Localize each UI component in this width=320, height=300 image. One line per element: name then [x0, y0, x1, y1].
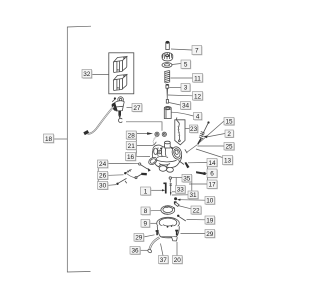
leader 1 with arrowhead — [151, 189, 166, 191]
leader 5 — [172, 64, 181, 65]
leader 10 with arrowhead — [177, 199, 205, 201]
label 13 — [223, 156, 234, 166]
label 20 — [173, 256, 183, 265]
svg-text:34: 34 — [182, 103, 190, 110]
svg-text:28: 28 — [128, 133, 136, 140]
svg-text:35: 35 — [183, 175, 191, 182]
leader 27 — [127, 107, 133, 109]
part 32 upper block (jet block) — [114, 57, 127, 73]
part 5 adjuster nut — [162, 53, 173, 61]
svg-text:3: 3 — [184, 85, 188, 92]
label 6 — [207, 169, 218, 178]
leader 33 — [172, 191, 176, 193]
label 4 — [194, 113, 203, 121]
label 22 — [191, 206, 202, 215]
label 28 — [126, 131, 137, 140]
leader 22 — [178, 206, 191, 209]
leader 18 — [54, 138, 68, 140]
label 36 — [130, 247, 141, 255]
part 14 stud bolt — [185, 162, 190, 168]
label 29 right — [205, 230, 215, 239]
part 7 cable adjuster pin — [166, 41, 170, 50]
wire: choke to carb top leader — [126, 122, 162, 131]
part 4 throttle slide — [164, 107, 171, 119]
leader 21 — [136, 142, 156, 146]
svg-text:22: 22 — [192, 208, 200, 215]
label 2 — [225, 130, 234, 138]
label 37 — [159, 256, 169, 265]
part 11 throttle spring — [165, 71, 170, 84]
svg-text:5: 5 — [184, 62, 188, 69]
leader 13 — [196, 149, 223, 158]
leader 6 — [206, 172, 207, 174]
svg-text:16: 16 — [127, 154, 135, 161]
svg-text:33: 33 — [177, 187, 185, 194]
label 27 — [132, 104, 143, 113]
svg-text:6: 6 — [210, 171, 214, 178]
leader 7 — [171, 49, 192, 50]
svg-text:8: 8 — [144, 208, 148, 215]
leader 4 — [172, 112, 194, 116]
leader 24 — [108, 163, 138, 165]
part: screw for top cover (16/24) — [139, 163, 151, 172]
svg-text:37: 37 — [160, 257, 168, 264]
leader 31 — [172, 194, 188, 196]
leader 29 right — [181, 233, 206, 235]
part 36 drain tube — [147, 238, 159, 254]
container box for part 32 — [109, 53, 134, 94]
label 10 — [205, 197, 215, 205]
label 33 — [176, 186, 186, 194]
svg-text:21: 21 — [128, 143, 136, 150]
label 32 — [82, 70, 92, 79]
svg-text:9: 9 — [144, 221, 148, 228]
leader 9 — [150, 222, 158, 224]
leader 3 — [169, 87, 181, 89]
svg-text:31: 31 — [189, 192, 197, 199]
connector 35-31 — [191, 182, 193, 191]
part 34 needle seat — [166, 100, 168, 104]
bracket 18 (assembly brace) — [67, 26, 91, 272]
part 33 float needle valve — [170, 183, 172, 196]
leader 34 — [169, 103, 181, 106]
label 24 — [98, 160, 109, 169]
label 8 — [141, 207, 151, 215]
leader 36 — [140, 249, 147, 251]
part: washer under nut — [162, 63, 172, 68]
svg-text:11: 11 — [194, 75, 201, 82]
svg-text:29: 29 — [135, 235, 143, 242]
part 29 bowl screws (left and right) — [156, 230, 179, 236]
svg-text:24: 24 — [99, 161, 107, 168]
label 14 — [207, 159, 218, 168]
part 32 lower block (jet block) — [114, 75, 127, 91]
connector line 14-6-17 — [206, 161, 208, 184]
part 35 float pin screw — [169, 177, 171, 183]
part 12 jet needle — [167, 89, 168, 102]
svg-text:36: 36 — [131, 248, 139, 255]
label 7 — [192, 46, 202, 56]
svg-text:29: 29 — [206, 231, 214, 238]
svg-text:19: 19 — [206, 218, 214, 225]
svg-text:27: 27 — [133, 105, 141, 112]
label 25 — [224, 143, 235, 151]
label 19 — [205, 216, 215, 225]
leader 2 with arrowhead — [204, 134, 226, 139]
part: retaining C-ring under choke — [118, 116, 122, 123]
part 27 electric choke unit — [112, 97, 125, 118]
part 26 screws — [124, 169, 147, 178]
label 23 — [190, 125, 199, 133]
part 23 overflow pipe — [175, 118, 185, 145]
svg-text:14: 14 — [208, 160, 216, 167]
svg-text:4: 4 — [196, 114, 200, 121]
part: throttle cable elbow hose — [153, 137, 157, 148]
label 17 — [207, 180, 218, 189]
label 21 — [126, 142, 137, 151]
leader 19 — [187, 219, 206, 221]
svg-text:2: 2 — [227, 131, 231, 138]
label 31 — [188, 191, 199, 199]
leader 28 — [136, 132, 153, 135]
svg-text:7: 7 — [195, 48, 199, 55]
part 27 choke cable wire — [83, 107, 113, 136]
leader 32 — [91, 74, 109, 76]
label 12 — [193, 92, 204, 101]
leader 12 — [168, 94, 193, 97]
svg-text:25: 25 — [225, 143, 233, 150]
label 26 — [98, 172, 109, 181]
svg-text:13: 13 — [224, 158, 232, 165]
leader 35 — [172, 178, 182, 186]
carburettor main body — [147, 141, 187, 172]
leader 14 — [188, 162, 207, 164]
svg-text:32: 32 — [83, 71, 91, 78]
svg-text:20: 20 — [174, 257, 182, 264]
leader 26 — [108, 174, 123, 177]
leader 30 — [108, 184, 116, 187]
svg-text:23: 23 — [190, 126, 198, 133]
label 5 — [181, 60, 191, 69]
leader 11 — [171, 77, 193, 79]
part 3 needle clip — [166, 84, 169, 88]
svg-text:17: 17 — [208, 182, 216, 189]
label 35 — [182, 174, 192, 182]
leader 17 — [189, 183, 207, 185]
svg-text:10: 10 — [206, 198, 214, 205]
label 18 — [44, 134, 55, 143]
part 10 plug dot — [174, 197, 177, 200]
leader 8 — [150, 209, 161, 212]
part 19 bowl screw — [177, 215, 186, 221]
connector line 28-21-16 — [135, 132, 137, 157]
svg-text:18: 18 — [45, 136, 53, 143]
label 15 — [224, 118, 235, 126]
part 6 hex screw — [196, 171, 206, 175]
leader 15 — [200, 121, 225, 143]
label 11 — [193, 74, 204, 83]
leader 25 — [198, 145, 225, 147]
leader 16 — [136, 155, 150, 157]
label 30 — [98, 182, 109, 191]
part 30 screw — [116, 178, 127, 185]
leader 23 — [185, 128, 190, 130]
label 9 — [141, 220, 150, 228]
svg-text:30: 30 — [99, 183, 107, 190]
connector line 24-26-30 — [97, 164, 99, 185]
part 8 bowl gasket — [161, 206, 175, 215]
svg-text:1: 1 — [144, 189, 148, 196]
label 29 left — [134, 234, 144, 242]
part 28 cable grommets (two rings) — [155, 132, 167, 136]
wire: idle screw to body — [187, 145, 198, 153]
leader 29 left — [144, 235, 155, 237]
part: float pivot pin — [163, 183, 166, 194]
label 34 — [181, 102, 192, 111]
leader 37 — [161, 244, 164, 256]
svg-text:12: 12 — [194, 93, 202, 100]
label 3 — [181, 84, 191, 93]
label 1 — [141, 187, 152, 196]
part 22 pilot jet — [174, 201, 179, 206]
part 9 float bowl — [157, 217, 180, 241]
part: idle mixture screw with spring — [197, 121, 209, 144]
label 16 — [126, 153, 137, 162]
svg-text:26: 26 — [99, 173, 107, 180]
svg-text:15: 15 — [225, 118, 233, 125]
leader 20 — [176, 242, 178, 256]
